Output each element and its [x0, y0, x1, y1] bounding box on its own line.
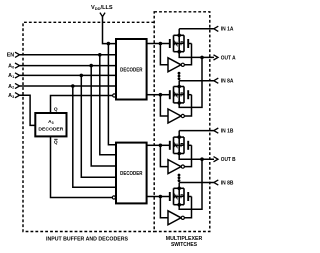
- svg-text:A3: A3: [8, 93, 14, 99]
- svg-text:OUT B: OUT B: [221, 157, 236, 163]
- svg-text:IN 1B: IN 1B: [221, 129, 234, 135]
- svg-text:DECODER: DECODER: [38, 127, 64, 133]
- svg-text:OUT A: OUT A: [221, 55, 236, 61]
- svg-text:SWITCHES: SWITCHES: [171, 242, 198, 248]
- svg-text:EN: EN: [7, 53, 15, 59]
- svg-text:Q: Q: [54, 106, 58, 112]
- svg-text:A3: A3: [48, 119, 53, 125]
- svg-text:INPUT BUFFER AND DECODERS: INPUT BUFFER AND DECODERS: [46, 236, 129, 242]
- svg-text:MULTIPLEXER: MULTIPLEXER: [166, 236, 203, 242]
- svg-text:IN 8A: IN 8A: [221, 79, 234, 85]
- svg-text:IN 8B: IN 8B: [221, 180, 234, 186]
- svg-text:A1: A1: [8, 73, 14, 79]
- svg-text:A0: A0: [8, 63, 14, 69]
- svg-text:IN 1A: IN 1A: [221, 27, 234, 33]
- svg-text:DECODER: DECODER: [120, 171, 143, 177]
- svg-text:DECODER: DECODER: [120, 67, 143, 73]
- svg-text:Q: Q: [54, 139, 58, 145]
- svg-text:A2: A2: [8, 84, 14, 90]
- svg-text:VDD/LLS: VDD/LLS: [91, 5, 113, 11]
